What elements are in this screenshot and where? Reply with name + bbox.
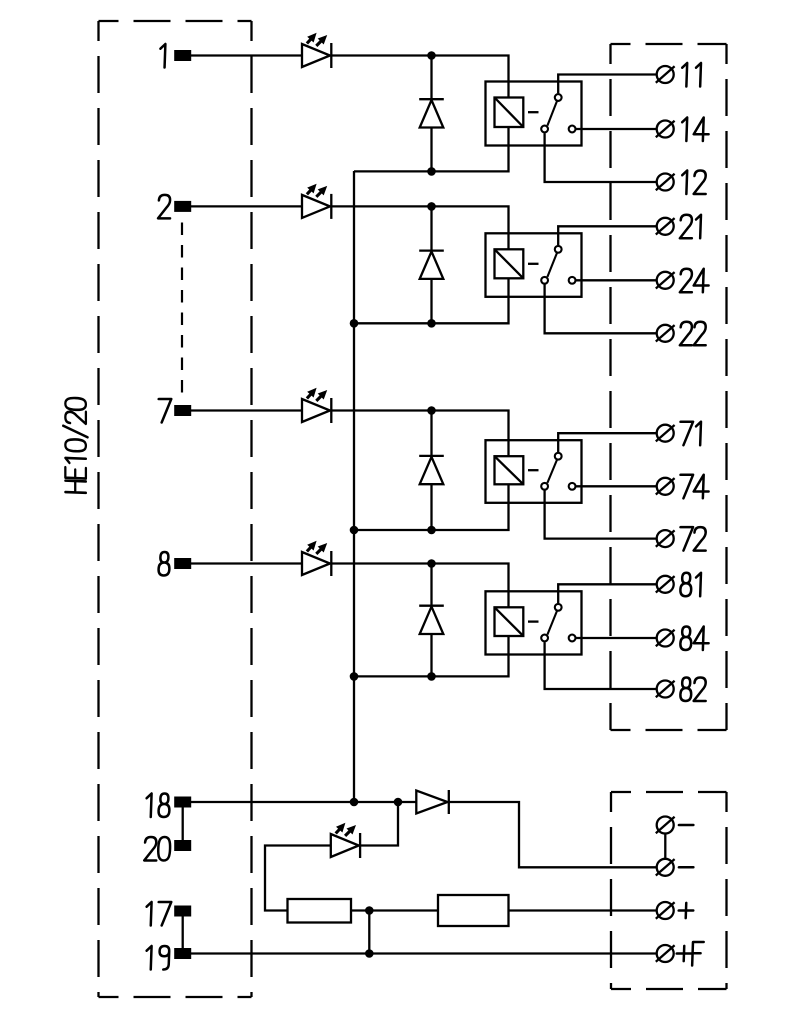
wire relay K1 common to terminal 11 xyxy=(558,75,656,94)
terminal 14 xyxy=(656,121,675,138)
wire relay K4 NO contact to terminal 84 xyxy=(575,637,656,639)
terminal minus (upper) xyxy=(656,817,675,834)
link pin18 to pin20 xyxy=(182,808,184,841)
wire to diode D3a cathode xyxy=(430,411,432,456)
pin 17 xyxy=(146,902,191,926)
wire relay K1 NC contact to terminal 12 xyxy=(545,133,657,182)
terminal 22 xyxy=(656,325,675,342)
terminal minus (lower) xyxy=(656,859,675,876)
resistor R2 xyxy=(438,895,509,926)
pin 18 xyxy=(146,794,191,818)
wire diode D4a anode to return xyxy=(430,634,432,676)
terminal 74 xyxy=(656,478,675,495)
pin 1 xyxy=(160,44,191,68)
label HE10/20 xyxy=(63,398,88,493)
junction xyxy=(350,319,359,328)
junction xyxy=(350,526,359,535)
link pin17 to pin19 xyxy=(182,917,184,949)
resistor R1 xyxy=(288,899,352,923)
junction xyxy=(427,51,436,60)
wire relay K3 NC contact to terminal 72 xyxy=(545,491,657,539)
wire relay K2 NO contact to terminal 24 xyxy=(575,279,656,281)
junction xyxy=(427,202,436,211)
wire relay K4 common to terminal 81 xyxy=(558,584,656,603)
freewheeling diode D3a xyxy=(419,456,444,484)
wire pin8 to LED xyxy=(191,562,302,564)
diode D5 (reverse polarity protection) xyxy=(416,790,449,814)
junction xyxy=(427,167,436,176)
wire relay K3 common to terminal 71 xyxy=(558,433,656,452)
terminal plus-F xyxy=(656,945,675,962)
wire relay K3 coil return to bus xyxy=(354,484,509,530)
junction xyxy=(427,406,436,415)
wire LED D6 cathode branch xyxy=(361,802,398,846)
pin 19 xyxy=(146,946,191,970)
pin 8 xyxy=(158,552,191,576)
LED D3 xyxy=(302,388,331,423)
wire pin18 to diode D5 xyxy=(191,801,416,803)
terminal 24 xyxy=(656,272,675,289)
terminal 12 xyxy=(656,174,675,191)
power indicator LED D6 xyxy=(331,823,360,858)
wire R1 to R2 xyxy=(351,909,438,911)
wire to diode D4a cathode xyxy=(430,564,432,606)
freewheeling diode D4a xyxy=(419,606,444,634)
terminal 82 xyxy=(656,681,675,698)
terminal 72 xyxy=(656,530,675,547)
wire diode D3a anode to return xyxy=(430,484,432,530)
LED D2 xyxy=(302,184,331,219)
wire diode D1a anode to return xyxy=(430,128,432,172)
junction xyxy=(394,798,403,807)
dashed link pin2 to pin7 xyxy=(181,223,183,402)
wire relay K3 NO contact to terminal 74 xyxy=(575,485,656,487)
wire pin7 to LED xyxy=(191,409,302,411)
junction xyxy=(427,672,436,681)
wire diode D2a anode to return xyxy=(430,279,432,323)
wire to diode D2a cathode xyxy=(430,206,432,250)
relay K4 xyxy=(486,591,582,654)
output terminal block (dashed box) xyxy=(611,44,727,730)
link terminal minus to minus xyxy=(664,834,666,858)
wire relay K2 common to terminal 21 xyxy=(558,226,656,245)
LED D4 xyxy=(302,541,331,576)
wire junction to pin19 wire xyxy=(368,911,370,954)
junction xyxy=(427,526,436,535)
wire relay K2 coil return to bus xyxy=(354,278,509,323)
pin 20 xyxy=(144,837,191,861)
wire pin1 to LED xyxy=(191,54,302,56)
connector HE10/20 outline (dashed box) xyxy=(99,21,252,997)
wire LED to relay K2 coil xyxy=(332,206,509,249)
wire relay K2 NC contact to terminal 22 xyxy=(545,285,657,334)
junction xyxy=(427,319,436,328)
junction xyxy=(350,672,359,681)
freewheeling diode D1a xyxy=(419,99,444,127)
terminal 11 xyxy=(656,66,675,83)
relay K1 xyxy=(486,82,582,146)
wire LED to relay K3 coil xyxy=(332,411,509,457)
LED D1 xyxy=(302,33,331,68)
wire relay K4 NC contact to terminal 82 xyxy=(545,642,657,689)
wire relay K1 NO contact to terminal 14 xyxy=(575,128,656,130)
terminal 84 xyxy=(656,630,675,647)
terminal 81 xyxy=(656,576,675,593)
wire LED D6 anode to resistor R1 xyxy=(265,846,331,911)
pin 7 xyxy=(158,399,191,423)
wire relay K4 coil return to bus xyxy=(354,636,509,676)
wire diode D5 to terminal minus xyxy=(449,802,656,867)
junction xyxy=(365,949,374,958)
wire LED to relay K1 coil xyxy=(332,56,509,98)
wire relay K1 coil return to bus xyxy=(354,127,509,171)
terminal plus xyxy=(656,902,675,919)
junction xyxy=(365,906,374,915)
junction xyxy=(350,798,359,807)
wire LED to relay K4 coil xyxy=(332,564,509,608)
pin 2 xyxy=(158,195,191,219)
power terminal block (dashed box) xyxy=(611,792,727,989)
freewheeling diode D2a xyxy=(419,251,444,279)
wire pin2 to LED xyxy=(191,205,302,207)
wire pin19 to terminal plus-F xyxy=(191,952,656,954)
negative bus wire xyxy=(353,171,355,802)
terminal 71 xyxy=(656,425,675,442)
wire to diode D1a cathode xyxy=(430,56,432,100)
wire R2 to terminal plus xyxy=(509,909,657,911)
junction xyxy=(427,559,436,568)
terminal 21 xyxy=(656,218,675,235)
relay K2 xyxy=(486,233,582,296)
relay K3 xyxy=(486,440,582,503)
